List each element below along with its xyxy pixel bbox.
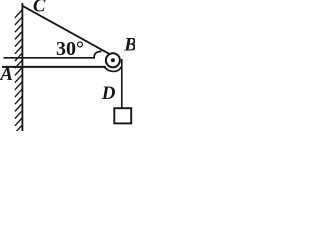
pulley wheel at B xyxy=(106,53,120,67)
pulley axle dot xyxy=(111,58,115,62)
bar AB top edge xyxy=(4,57,96,59)
rope CB (diagonal at 30 deg) xyxy=(22,6,109,54)
svg-text:30°: 30° xyxy=(56,38,84,60)
rope down to weight xyxy=(121,59,123,109)
svg-text:D: D xyxy=(101,83,116,104)
svg-text:A: A xyxy=(0,64,13,85)
svg-text:B: B xyxy=(123,34,135,55)
weight block xyxy=(114,108,131,123)
clevis arc top xyxy=(94,51,101,57)
svg-text:C: C xyxy=(33,0,46,17)
wall line xyxy=(21,3,23,131)
background xyxy=(0,0,135,131)
bar AB bottom edge xyxy=(2,66,106,68)
wall hatching xyxy=(15,10,23,134)
wrap arc bottom around pulley to rope xyxy=(104,66,122,71)
